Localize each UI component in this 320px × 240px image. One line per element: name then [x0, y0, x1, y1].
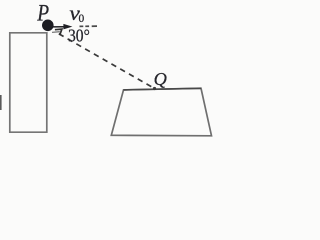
svg-text:0: 0 — [79, 13, 85, 25]
svg-text:Q: Q — [154, 69, 167, 89]
svg-text:P: P — [36, 1, 49, 26]
svg-text:30°: 30° — [68, 25, 90, 45]
